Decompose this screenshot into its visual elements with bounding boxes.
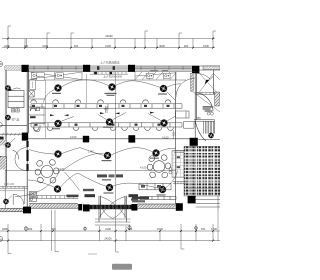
- column bottom D: [176, 203, 183, 211]
- spiral stair curved wall upper: [197, 93, 214, 111]
- pendant symbol above fan F5: [104, 106, 109, 113]
- svg-text:4.100: 4.100: [162, 135, 169, 139]
- svg-text:400: 400: [28, 227, 33, 231]
- window strip A: [29, 66, 83, 68]
- svg-text:400: 400: [74, 44, 79, 48]
- stair tread band: [194, 120, 214, 134]
- desk row 1 (top office): [31, 104, 182, 108]
- top dimension tick slashes: [7, 38, 214, 49]
- stair note text block: [203, 106, 213, 111]
- top exterior wall: [5, 66, 220, 70]
- column mid-right (large): [190, 138, 198, 146]
- switch boxes right of vestibule: [29, 191, 36, 201]
- urinal: [34, 125, 40, 132]
- bottom wall of left block (hatched): [0, 208, 23, 211]
- window band left of hatch block: [173, 151, 186, 184]
- top dimension line overall: [2, 39, 215, 48]
- column mid C: [128, 135, 135, 142]
- white seams in block: [184, 146, 220, 196]
- door jamb fills on partition wall: [26, 141, 28, 147]
- left edge window mark: [0, 137, 4, 142]
- column bottom B: [78, 204, 82, 210]
- wiring arcs middle room: [29, 148, 176, 156]
- svg-text:24200: 24200: [105, 34, 113, 38]
- ceiling fan F3 top row: [160, 85, 167, 92]
- svg-text:上人孔800x800: 上人孔800x800: [103, 75, 123, 79]
- svg-text:24200: 24200: [104, 237, 112, 241]
- entry arrow: [205, 80, 210, 85]
- right corner extension: [217, 211, 219, 241]
- stair treads: [204, 121, 214, 133]
- svg-text:1500: 1500: [157, 227, 163, 231]
- ceiling fan F8 middle room: [104, 152, 111, 159]
- svg-text:200: 200: [184, 44, 189, 48]
- long counter cells above bottom wall right: [139, 183, 176, 199]
- bottom-right corner walls: [196, 196, 220, 211]
- small sink fixtures: [11, 109, 19, 112]
- ceiling fan F2 top row: [109, 84, 116, 91]
- stair landing boxes: [175, 111, 194, 128]
- bottom tick slashes: [7, 230, 214, 242]
- exhaust fan L3: [5, 142, 10, 147]
- entrance steps: [95, 219, 130, 225]
- glass partition lines: [44, 74, 87, 138]
- exhaust fan L4: [3, 199, 8, 204]
- bottom extension lines: [8, 72, 213, 254]
- ticks left of stair: [172, 130, 176, 139]
- bottom wall hatch segment left: [29, 204, 78, 209]
- svg-text:1500: 1500: [203, 44, 209, 48]
- column mid B: [83, 136, 89, 143]
- svg-text:400: 400: [51, 227, 56, 231]
- louver boxes with symbols: [32, 73, 171, 79]
- wiring arcs mid desks: [61, 113, 176, 122]
- monitors row 1: [32, 105, 170, 107]
- column top-middle: [83, 65, 90, 72]
- hatched pier left: [5, 66, 22, 70]
- bottom dimension texts: [2, 227, 217, 241]
- ceiling fan F12 lower room: [159, 186, 166, 193]
- left grid bubbles (clipped at edge): [0, 62, 3, 242]
- bottom wall window band left: [29, 196, 78, 199]
- shaft with X: [29, 90, 35, 97]
- corner hatch top-left of stair room: [0, 139, 6, 145]
- chairs row 2: [33, 128, 173, 131]
- right wall hatch strip: [215, 92, 220, 106]
- chairs row 1: [31, 100, 171, 103]
- ceiling fan F1 top row: [55, 85, 62, 92]
- stair fan: [208, 133, 213, 138]
- vestibule window band: [0, 186, 28, 204]
- top dimension texts: [4, 34, 209, 48]
- level labels on beam: [70, 135, 169, 154]
- ceiling fan F11 lower room: [106, 184, 113, 191]
- svg-text:上人孔相连做法: 上人孔相连做法: [100, 60, 120, 64]
- svg-text:200: 200: [128, 227, 133, 231]
- small leader bottom-left: [88, 253, 97, 255]
- svg-text:4.100: 4.100: [140, 165, 147, 169]
- round table T1 with chairs: [35, 158, 59, 184]
- ceiling fan F10 lower room: [54, 186, 61, 193]
- svg-text:4.100: 4.100: [70, 135, 77, 139]
- door label blobs near entrance: [67, 195, 79, 198]
- spiral stair curved wall lower: [195, 121, 206, 141]
- column bottom C (entrance right): [131, 204, 137, 211]
- exhaust fan L2: [5, 115, 10, 120]
- porch canopy diagonals: [193, 73, 220, 112]
- svg-text:2400: 2400: [4, 44, 10, 48]
- access hatch marks: [94, 72, 97, 75]
- meeting room label row: [97, 174, 107, 177]
- entrance door posts: [99, 196, 126, 222]
- bottom wall hatch segment right: [137, 204, 175, 208]
- ceiling fan F7 middle room: [55, 151, 62, 158]
- left block / office partition wall: [27, 70, 28, 207]
- ceiling fan F5 mid desks: [106, 119, 113, 126]
- storage hatch block bottom-left: [0, 157, 7, 186]
- ceiling fan F6 mid desks: [161, 120, 168, 127]
- door arc upper toilet: [13, 88, 21, 90]
- outlet circles near table T2: [169, 168, 172, 174]
- wiring arcs top row: [44, 80, 181, 103]
- svg-text:4000: 4000: [159, 44, 165, 48]
- column mid-left: [22, 133, 28, 141]
- ceiling fan F4 mid desks: [55, 120, 62, 127]
- column below hatch block: [188, 196, 196, 204]
- vestibule door arc: [13, 194, 24, 205]
- survey point circles on dim line: [24, 225, 197, 231]
- svg-text:D: D: [0, 62, 2, 66]
- svg-text:1.20 1.00: 1.20 1.00: [4, 183, 15, 186]
- exhaust fan L1: [5, 85, 10, 90]
- svg-text:1800: 1800: [2, 227, 8, 231]
- title stamp: [112, 264, 132, 270]
- wiring arcs lower room: [15, 153, 178, 196]
- door tag blob: [83, 189, 94, 191]
- svg-text:360: 360: [197, 117, 202, 120]
- column top-right: [192, 66, 199, 73]
- louver band with diagonals: [30, 72, 176, 80]
- mid floor beam line: [0, 134, 220, 139]
- wall under toilets: [0, 125, 27, 127]
- entrance threshold dark band: [90, 205, 132, 209]
- left exterior wall: [5, 70, 6, 208]
- svg-text:4100: 4100: [42, 44, 48, 48]
- wall poche right of top-right column: [191, 73, 194, 91]
- round table T2 with chairs: [147, 154, 170, 179]
- right wall of hall / stair wall: [176, 70, 214, 204]
- tall label box on partition: [30, 80, 36, 90]
- small label boxes top: [37, 73, 45, 81]
- door arc small room: [11, 150, 20, 159]
- svg-text:2100: 2100: [105, 227, 111, 231]
- column top C: [128, 65, 135, 72]
- window strip C: [135, 66, 192, 68]
- column top-left: [22, 65, 29, 72]
- window strip B: [90, 66, 128, 68]
- hall door arc at stair: [176, 73, 211, 97]
- small wc room fixtures: [29, 99, 45, 124]
- svg-text:1700: 1700: [211, 227, 217, 231]
- soffit band below top wall: [29, 72, 195, 80]
- desk row 2: [31, 123, 182, 127]
- dark label block left of counter: [132, 197, 149, 200]
- long reference line across hall: [5, 170, 176, 172]
- column bottom-left: [23, 207, 31, 214]
- monitors row 2: [35, 124, 161, 126]
- svg-text:100: 100: [24, 44, 29, 48]
- fan labels: [52, 93, 167, 196]
- hatched pier right: [203, 66, 220, 70]
- double door arcs into hall: [15, 148, 26, 171]
- top dimension extension lines: [8, 26, 216, 48]
- svg-text:700: 700: [201, 227, 206, 231]
- counter / lockers: [8, 91, 24, 108]
- svg-text:排气扇: 排气扇: [12, 118, 20, 122]
- ceiling fan F9 middle room: [153, 150, 160, 157]
- schedule grid annex: [172, 150, 184, 177]
- porch grille lines: [195, 93, 220, 95]
- diffuser arrows on desks: [50, 112, 155, 117]
- ticked ceiling band mid-top: [90, 72, 128, 74]
- entrance double door swing arcs: [100, 197, 126, 219]
- hatch ticks on left wall piece: [2, 133, 20, 136]
- svg-text:2100: 2100: [105, 44, 111, 48]
